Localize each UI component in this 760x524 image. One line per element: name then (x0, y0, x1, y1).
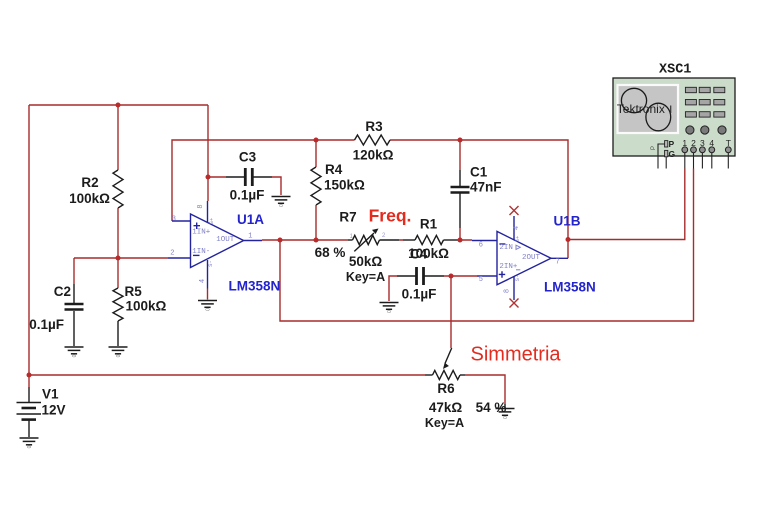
svg-text:Simmetria: Simmetria (471, 344, 562, 366)
wire bottom rail y375 (29, 374, 425, 376)
resistor R5 (113, 258, 123, 346)
svg-text:2: 2 (170, 249, 174, 257)
svg-text:U1A: U1A (237, 212, 264, 227)
resistor R2 (113, 105, 123, 258)
resistor R4 (311, 140, 321, 240)
svg-text:100kΩ: 100kΩ (69, 191, 110, 206)
svg-text:2IN: 2IN (499, 244, 513, 252)
wire C4/U1B pin5 node to R6 wiper (389, 276, 477, 348)
svg-text:1: 1 (248, 233, 252, 241)
oscilloscope XSC1 (613, 63, 735, 169)
capacitor C4 (397, 267, 444, 285)
wire U1A pin4 to ground (207, 289, 209, 300)
potentiometer R6 47k (425, 348, 465, 380)
svg-text:7: 7 (556, 259, 560, 267)
ground U1A (198, 301, 217, 308)
svg-text:P: P (651, 146, 657, 150)
svg-text:C3: C3 (239, 150, 257, 165)
svg-text:R5: R5 (125, 284, 143, 299)
svg-text:68 %: 68 % (315, 245, 346, 260)
svg-text:R4: R4 (325, 162, 343, 177)
svg-text:0.1µF: 0.1µF (230, 188, 265, 203)
node U1A out (278, 238, 283, 243)
svg-text:0.1µF: 0.1µF (402, 287, 437, 302)
svg-text:1OUT: 1OUT (216, 236, 235, 244)
svg-text:R3: R3 (365, 119, 383, 134)
svg-text:2OUT: 2OUT (522, 254, 541, 262)
svg-text:4: 4 (513, 226, 521, 230)
svg-text:C1: C1 (470, 165, 488, 180)
svg-text:0: 0 (279, 204, 285, 207)
svg-text:6: 6 (479, 241, 483, 249)
node V1 tap (27, 373, 32, 378)
X mark U1B top pin (510, 206, 519, 215)
wire U1A pin2 rail (74, 257, 168, 259)
wire feedback rail y140 (172, 140, 568, 240)
svg-text:C2: C2 (54, 284, 71, 299)
capacitor C1 (451, 140, 470, 240)
node R2 top (116, 103, 121, 108)
svg-text:8: 8 (504, 289, 512, 293)
svg-text:R2: R2 (81, 175, 98, 190)
svg-text:2IN+: 2IN+ (499, 263, 518, 271)
svg-text:Freq.: Freq. (369, 206, 412, 226)
svg-text:Key=A: Key=A (346, 270, 385, 284)
svg-text:S-: S- (207, 260, 214, 267)
svg-text:0: 0 (503, 416, 509, 419)
svg-text:100kΩ: 100kΩ (126, 299, 167, 314)
wire R6 right to ground (465, 375, 505, 404)
svg-text:5: 5 (479, 276, 483, 284)
wire left vertical rail (28, 105, 30, 375)
svg-text:XSC1: XSC1 (659, 63, 691, 78)
svg-text:0: 0 (387, 310, 393, 313)
node C3 tap (206, 175, 211, 180)
svg-text:1IN+: 1IN+ (192, 228, 211, 236)
svg-text:150kΩ: 150kΩ (324, 178, 365, 193)
wire U1B out to scope ch1 (568, 169, 685, 259)
op-amp U1B (472, 216, 568, 300)
ground R6 (496, 409, 515, 416)
node R4 top (314, 138, 319, 143)
svg-text:Key=A: Key=A (425, 416, 464, 430)
ground C4 (380, 303, 399, 310)
svg-text:Tektronix: Tektronix (617, 102, 665, 116)
potentiometer R7 50k (348, 229, 399, 252)
svg-text:4: 4 (199, 279, 207, 283)
resistor R3 (355, 135, 390, 145)
svg-text:R7: R7 (339, 210, 356, 225)
X mark U1B bottom pin (510, 299, 519, 308)
svg-text:8: 8 (197, 204, 205, 208)
ground C3 (272, 197, 291, 204)
svg-text:3: 3 (172, 215, 176, 223)
node U1B out (566, 237, 571, 242)
svg-text:54 %: 54 % (476, 400, 507, 415)
svg-text:47kΩ: 47kΩ (429, 400, 463, 415)
ground R5 (109, 347, 128, 354)
wire V+ drop to U1A pin8 (207, 105, 209, 201)
wire U1A output rail y240 (262, 239, 472, 241)
svg-text:120kΩ: 120kΩ (353, 147, 394, 162)
node C1 top (458, 138, 463, 143)
svg-text:P: P (669, 139, 675, 149)
svg-text:LM358N: LM358N (229, 279, 281, 294)
node C1 bottom (458, 238, 463, 243)
ground C2 (65, 347, 84, 354)
wire top-left horizontal rail (29, 104, 208, 106)
svg-text:0: 0 (72, 354, 78, 357)
svg-text:0: 0 (206, 308, 212, 311)
op-amp U1A (168, 201, 262, 289)
svg-text:S+: S+ (208, 218, 215, 225)
battery V1 12V (17, 375, 42, 437)
svg-text:S-: S- (514, 275, 521, 282)
node R4 bottom (314, 238, 319, 243)
svg-text:R6: R6 (437, 381, 455, 396)
svg-text:LM358N: LM358N (544, 280, 596, 295)
svg-text:0: 0 (116, 354, 122, 357)
capacitor C2 (65, 258, 84, 346)
wire output to scope ch2 (280, 169, 694, 322)
svg-text:50kΩ: 50kΩ (349, 254, 383, 269)
svg-text:0: 0 (27, 445, 33, 448)
resistor R1 (403, 235, 458, 244)
svg-text:100kΩ: 100kΩ (408, 246, 449, 261)
capacitor C3 (208, 168, 281, 195)
node R5 top (116, 256, 121, 261)
svg-text:S+: S+ (514, 236, 521, 243)
svg-text:0.1µF: 0.1µF (29, 317, 64, 332)
svg-text:R1: R1 (420, 216, 438, 231)
ground V1 (20, 438, 39, 445)
svg-text:U1B: U1B (554, 213, 581, 228)
svg-text:G: G (669, 149, 676, 159)
node C4 / pin5 (449, 274, 454, 279)
svg-text:V1: V1 (42, 387, 59, 402)
svg-text:1IN-: 1IN- (192, 248, 210, 256)
svg-text:12V: 12V (42, 403, 66, 418)
svg-text:47nF: 47nF (470, 180, 502, 195)
